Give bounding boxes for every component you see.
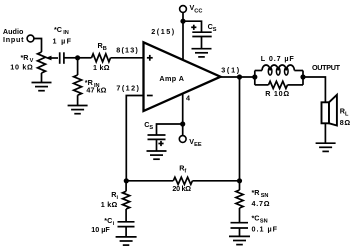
wire CS top to ground <box>201 37 203 49</box>
minus input marker <box>147 95 153 97</box>
wire Ci to ground <box>125 227 127 237</box>
inductor L <box>255 65 303 75</box>
svg-text:OUTPUT: OUTPUT <box>312 63 341 72</box>
wire node A to RB <box>78 57 92 59</box>
svg-text:S: S <box>213 27 217 33</box>
op-amp U1 Amp A <box>144 42 221 111</box>
resistor RSN <box>236 190 243 208</box>
pin 8(13) <box>116 46 138 55</box>
node OUT junction <box>237 74 242 79</box>
capacitor CS bottom <box>148 135 166 139</box>
wire Ri to Ci <box>125 209 127 222</box>
wiper arrow RV <box>45 56 58 61</box>
resistor Rf <box>126 177 239 184</box>
label CS bottom <box>144 120 153 131</box>
wire LR right vertical <box>302 71 304 85</box>
wire CS bottom to ground <box>156 139 158 151</box>
svg-text:*R: *R <box>252 188 261 197</box>
svg-text:20 kΩ: 20 kΩ <box>172 184 191 193</box>
label RV value <box>10 53 33 72</box>
wire FB left down <box>125 181 127 192</box>
plus input marker <box>147 55 153 61</box>
resistor RB <box>92 54 111 62</box>
svg-text:L 0.7 µF: L 0.7 µF <box>261 54 295 63</box>
label VEE <box>189 137 202 148</box>
capacitor CS top <box>192 32 211 36</box>
wire LR left vertical <box>254 71 256 85</box>
svg-text:Amp A: Amp A <box>159 74 184 83</box>
label RL value <box>340 106 351 127</box>
node A junction <box>75 55 80 60</box>
label RB value <box>93 41 110 72</box>
label Amp A <box>159 74 184 83</box>
svg-text:8Ω: 8Ω <box>340 118 351 127</box>
svg-text:S: S <box>149 125 153 131</box>
label CS top <box>208 22 217 33</box>
wire cap to node A <box>64 57 78 59</box>
svg-text:R 10Ω: R 10Ω <box>265 89 289 98</box>
svg-text:3(1): 3(1) <box>221 65 240 74</box>
label OUTPUT <box>312 63 341 72</box>
svg-text:EE: EE <box>194 142 202 148</box>
capacitor CSN <box>231 223 249 228</box>
svg-text:CC: CC <box>194 8 202 14</box>
svg-text:10 kΩ: 10 kΩ <box>10 62 33 71</box>
label Audio Input <box>3 27 24 44</box>
wire feedback vertical <box>239 77 241 181</box>
node FB right <box>237 178 242 183</box>
svg-text:B: B <box>103 46 107 52</box>
svg-text:Input: Input <box>3 35 24 44</box>
svg-text:7(12): 7(12) <box>116 83 139 92</box>
wire minus input <box>126 96 143 181</box>
svg-text:1 kΩ: 1 kΩ <box>101 200 118 209</box>
svg-text:f: f <box>184 169 186 175</box>
svg-text:L: L <box>345 111 349 117</box>
label L value <box>261 54 295 63</box>
wire RIN to ground <box>77 95 79 105</box>
label Ri value <box>101 190 119 209</box>
ground G7 <box>229 236 250 244</box>
ground G3 <box>192 49 212 57</box>
label R value <box>265 89 289 98</box>
plus marker CS bottom <box>158 141 163 146</box>
resistor RIN <box>74 75 82 95</box>
wire FB right down <box>239 181 241 190</box>
wire speaker to ground <box>324 123 326 143</box>
wire VCC node to CS top <box>183 21 202 32</box>
wire LR to speaker <box>303 77 325 102</box>
wire pin2 to VCC <box>182 12 184 60</box>
VEE terminal <box>179 136 186 143</box>
svg-text:*C: *C <box>104 216 112 225</box>
label Rf value <box>172 164 191 194</box>
svg-text:8(13): 8(13) <box>116 46 138 55</box>
VCC terminal <box>180 6 187 13</box>
node VCC junction <box>180 19 185 24</box>
svg-text:10 µF: 10 µF <box>91 225 110 234</box>
label CIN value <box>53 25 72 46</box>
ground G4 <box>147 151 167 159</box>
wire pot to ground <box>41 73 43 83</box>
wire input to pot <box>34 39 41 53</box>
label CSN value <box>252 214 278 234</box>
wire pin4 to VEE node <box>182 94 184 124</box>
svg-text:1 µF: 1 µF <box>53 36 72 45</box>
node FB left <box>124 178 129 183</box>
svg-text:4.7Ω: 4.7Ω <box>252 199 270 208</box>
wire VEE stub <box>182 124 184 136</box>
svg-text:SN: SN <box>261 193 269 199</box>
pin 2(15) label <box>151 27 175 36</box>
label RIN value <box>85 78 107 95</box>
resistor Ri <box>123 191 130 209</box>
svg-text:*C: *C <box>252 214 260 223</box>
svg-text:47 kΩ: 47 kΩ <box>86 86 106 95</box>
resistor R damping <box>255 81 303 88</box>
svg-text:i: i <box>113 221 115 227</box>
node VEE junction <box>180 121 185 126</box>
wire node A down <box>77 58 79 75</box>
node LR right <box>300 74 305 79</box>
svg-text:4: 4 <box>186 93 190 102</box>
capacitor CIN <box>60 52 64 64</box>
node LR left <box>252 74 257 79</box>
pin 4 label <box>186 93 190 102</box>
speaker RL <box>322 95 337 126</box>
plus marker CS top <box>191 25 196 30</box>
label Ci value <box>91 216 114 234</box>
input terminal J-IN <box>27 35 34 42</box>
svg-text:0.1 µF: 0.1 µF <box>252 225 278 234</box>
ground G1 <box>32 83 52 91</box>
label RSN value <box>252 188 270 208</box>
wire CSN to ground <box>239 228 241 236</box>
wire RSN to CSN <box>239 208 241 223</box>
potentiometer RV <box>38 52 46 73</box>
pin 3(1) label <box>221 65 240 74</box>
ground G2 <box>68 106 88 114</box>
ground G6 <box>116 237 137 245</box>
svg-text:*R: *R <box>21 53 30 62</box>
svg-text:*C: *C <box>54 25 62 34</box>
wire output rail <box>221 76 255 78</box>
svg-text:2(15): 2(15) <box>151 27 175 36</box>
svg-text:1 kΩ: 1 kΩ <box>93 63 110 72</box>
capacitor Ci <box>118 222 135 227</box>
ground G5 <box>316 143 336 151</box>
svg-text:IN: IN <box>63 30 69 36</box>
wire VEE node to CS bottom <box>157 124 183 135</box>
label VCC <box>190 3 203 14</box>
wire RB to plus input <box>111 57 144 59</box>
pin 7(12) label <box>116 83 139 92</box>
